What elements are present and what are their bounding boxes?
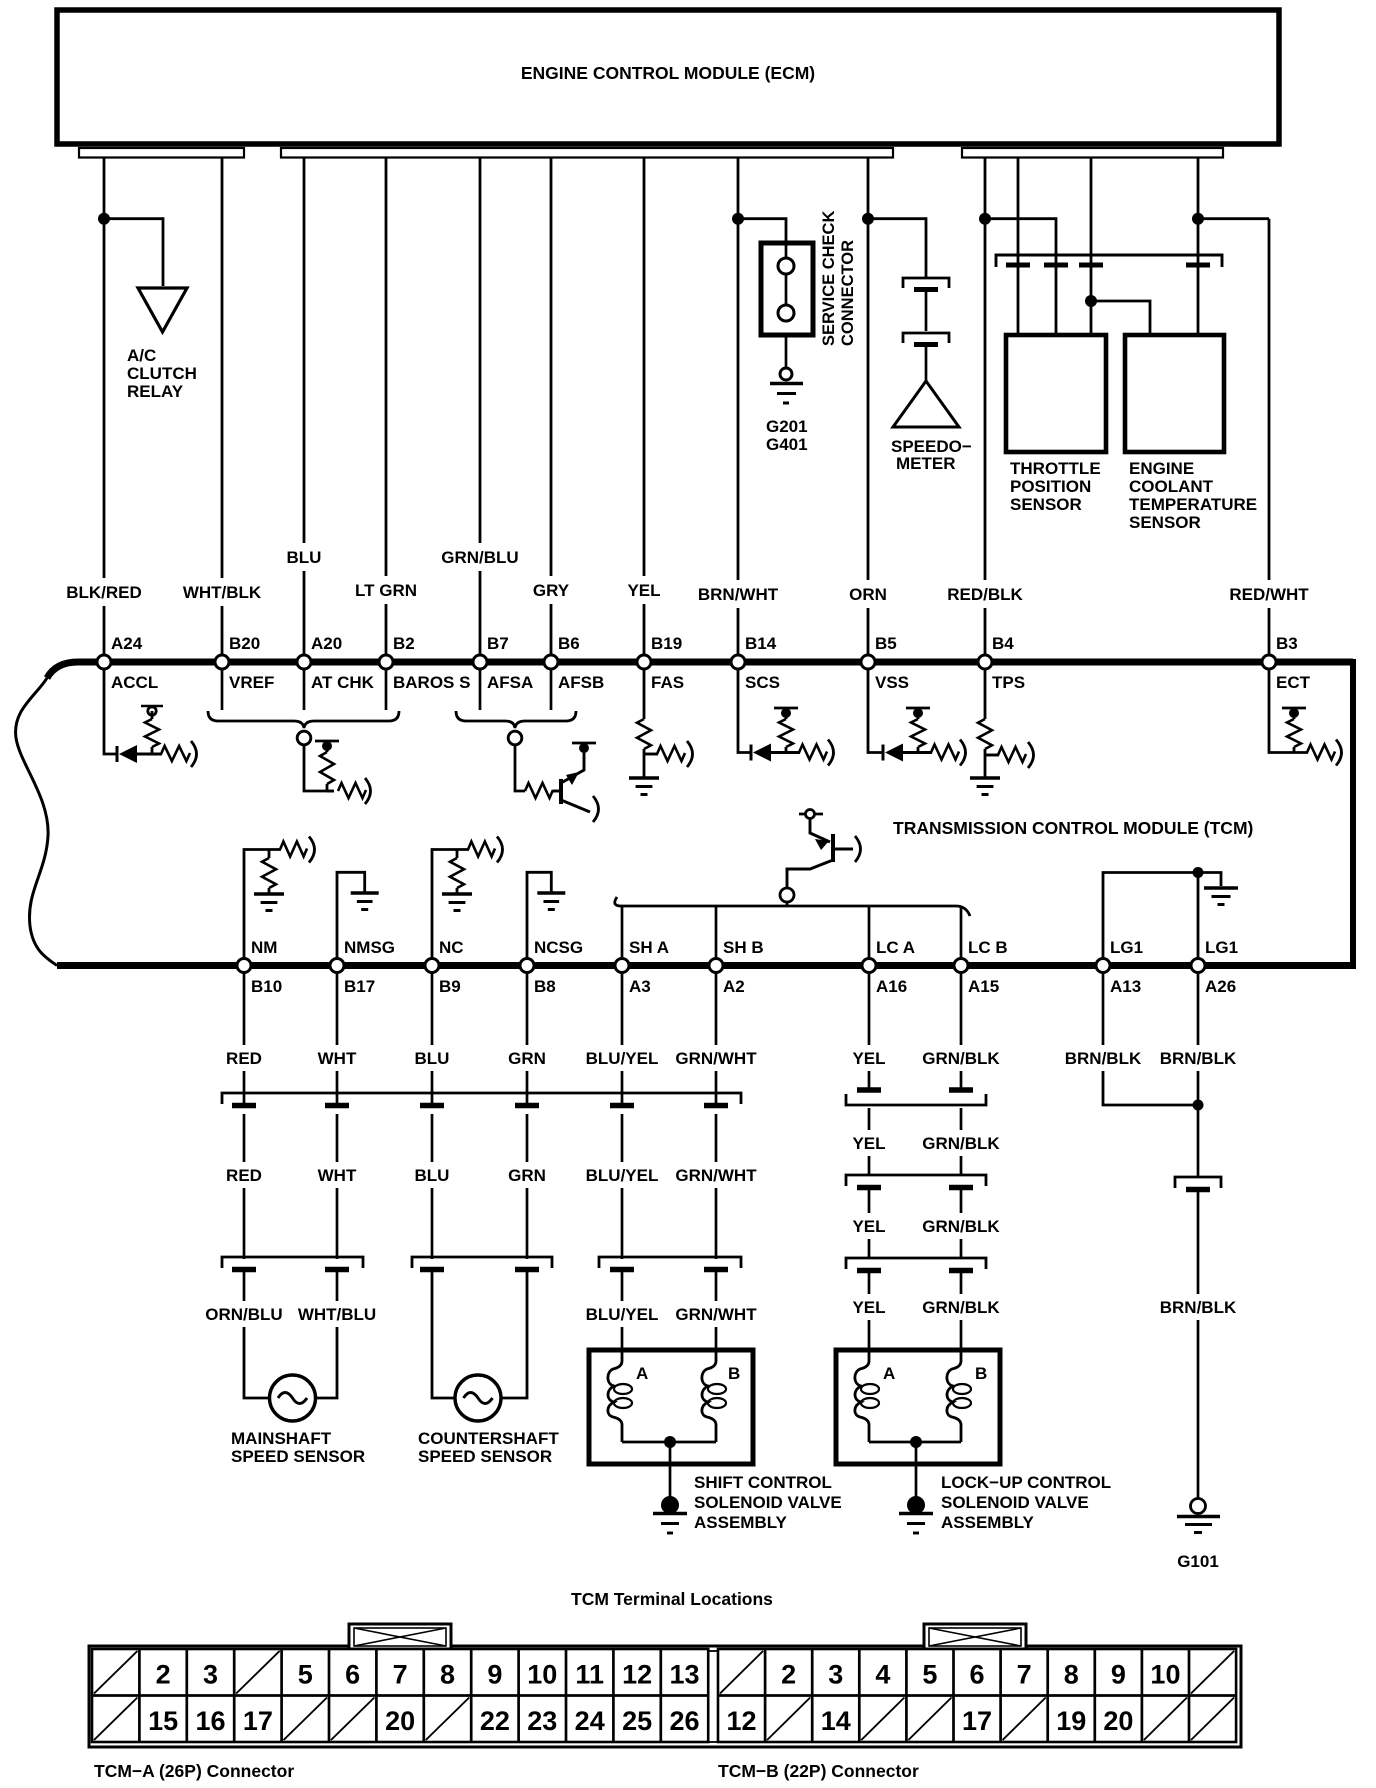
svg-text:7: 7 bbox=[393, 1660, 408, 1690]
svg-text:GRN/BLK: GRN/BLK bbox=[922, 1217, 1000, 1236]
svg-text:TEMPERATURE: TEMPERATURE bbox=[1129, 495, 1257, 514]
transistor Q (AFSA driver) bbox=[515, 743, 599, 822]
svg-text:AFSA: AFSA bbox=[487, 673, 533, 692]
wire BRN/BLK to G101 bbox=[1160, 1191, 1237, 1498]
wire ORN/BLU to mainshaft sensor bbox=[205, 1272, 282, 1398]
wire ECT pin2 bbox=[1197, 158, 1200, 339]
wire branch to B3 bbox=[1198, 217, 1269, 220]
svg-text:RED/WHT: RED/WHT bbox=[1229, 585, 1309, 604]
svg-text:9: 9 bbox=[1111, 1660, 1126, 1690]
TCM label bbox=[893, 818, 1253, 838]
svg-text:TCM Terminal Locations: TCM Terminal Locations bbox=[571, 1589, 773, 1609]
svg-text:LC A: LC A bbox=[876, 938, 915, 957]
wire BLU (below 432) bbox=[415, 972, 450, 1259]
svg-text:B6: B6 bbox=[558, 634, 580, 653]
terminal A3 SH A bbox=[615, 938, 669, 996]
wire B6 GRY bbox=[533, 158, 570, 663]
svg-text:A: A bbox=[883, 1364, 895, 1383]
terminal B3 ECT bbox=[1262, 634, 1311, 692]
wire WHT/BLU to mainshaft sensor bbox=[298, 1272, 376, 1398]
junction B3 branch bbox=[1192, 213, 1204, 225]
svg-text:B5: B5 bbox=[875, 634, 897, 653]
svg-text:GRN/WHT: GRN/WHT bbox=[675, 1305, 757, 1324]
svg-text:B2: B2 bbox=[393, 634, 415, 653]
inline connector LC row1 bbox=[846, 1090, 986, 1105]
svg-text:GRN/WHT: GRN/WHT bbox=[675, 1166, 757, 1185]
SH/LC gathering bracket bbox=[615, 897, 970, 958]
terminal A26 LG1 bbox=[1191, 938, 1238, 996]
wire B3 RED/WHT bbox=[1229, 219, 1309, 662]
svg-text:CLUTCH: CLUTCH bbox=[127, 364, 197, 383]
terminal B7 AFSA bbox=[473, 634, 533, 692]
svg-text:BLU/YEL: BLU/YEL bbox=[586, 1305, 659, 1324]
junction B5/speedometer bbox=[862, 213, 874, 225]
svg-text:20: 20 bbox=[1103, 1706, 1133, 1736]
wire TPS pin1 bbox=[1017, 158, 1020, 339]
svg-text:SOLENOID VALVE: SOLENOID VALVE bbox=[941, 1493, 1089, 1512]
svg-text:COUNTERSHAFT: COUNTERSHAFT bbox=[418, 1429, 559, 1448]
svg-text:FAS: FAS bbox=[651, 673, 684, 692]
VREF group resistor network bbox=[304, 741, 371, 804]
AFSA/AFSB brace bbox=[456, 669, 576, 745]
service check connector bbox=[761, 243, 813, 335]
svg-text:THROTTLE: THROTTLE bbox=[1010, 459, 1101, 478]
svg-text:VSS: VSS bbox=[875, 673, 909, 692]
junction BRN/BLK bbox=[1193, 1100, 1204, 1111]
junction A24/relay bbox=[98, 213, 110, 225]
svg-text:3: 3 bbox=[828, 1660, 843, 1690]
svg-text:GRN: GRN bbox=[508, 1049, 546, 1068]
TCM bottom bus bbox=[57, 962, 1353, 969]
svg-text:NMSG: NMSG bbox=[344, 938, 395, 957]
svg-text:LT GRN: LT GRN bbox=[355, 581, 417, 600]
svg-text:CONNECTOR: CONNECTOR bbox=[839, 240, 857, 346]
svg-text:A24: A24 bbox=[111, 634, 143, 653]
svg-text:14: 14 bbox=[821, 1706, 851, 1736]
svg-text:7: 7 bbox=[1017, 1660, 1032, 1690]
svg-text:SH B: SH B bbox=[723, 938, 764, 957]
svg-text:15: 15 bbox=[148, 1706, 178, 1736]
label lock-up control bbox=[941, 1473, 1111, 1532]
wire B4 RED/BLK bbox=[947, 158, 1023, 663]
terminal A2 SH B bbox=[709, 938, 764, 996]
terminal B20 VREF bbox=[215, 634, 274, 692]
svg-text:B9: B9 bbox=[439, 977, 461, 996]
shift solenoid coil A bbox=[608, 1350, 670, 1442]
terminal A13 LG1 bbox=[1096, 938, 1143, 996]
svg-text:A20: A20 bbox=[311, 634, 342, 653]
svg-text:GRN: GRN bbox=[508, 1166, 546, 1185]
wire GRN/WHT to shift solenoid bbox=[675, 1272, 757, 1350]
svg-text:13: 13 bbox=[669, 1660, 699, 1690]
wire BRN/BLK from A26 bbox=[1160, 972, 1237, 1176]
svg-text:22: 22 bbox=[480, 1706, 510, 1736]
terminal A20 AT CHK bbox=[297, 634, 375, 692]
VREF/AT CHK/BAROS S brace bbox=[208, 669, 399, 745]
svg-text:A/C: A/C bbox=[127, 346, 156, 365]
svg-text:POSITION: POSITION bbox=[1010, 477, 1091, 496]
svg-text:WHT/BLK: WHT/BLK bbox=[183, 583, 262, 602]
svg-text:METER: METER bbox=[896, 454, 956, 473]
A/C clutch relay symbol bbox=[127, 288, 197, 401]
label shift control bbox=[694, 1473, 842, 1532]
junction B14/service check bbox=[732, 213, 744, 225]
svg-text:ORN/BLU: ORN/BLU bbox=[205, 1305, 282, 1324]
svg-text:G201: G201 bbox=[766, 417, 808, 436]
inline connector (speedo 2) bbox=[903, 333, 949, 381]
svg-text:25: 25 bbox=[622, 1706, 652, 1736]
svg-text:ASSEMBLY: ASSEMBLY bbox=[694, 1513, 788, 1532]
ECM connector shell 1 bbox=[79, 148, 244, 158]
VSS internal network bbox=[868, 669, 966, 766]
svg-text:YEL: YEL bbox=[852, 1217, 885, 1236]
svg-text:16: 16 bbox=[195, 1706, 225, 1736]
terminal B2 BAROS S bbox=[379, 634, 470, 692]
lock-up solenoid coil B bbox=[916, 1350, 971, 1442]
wire B7 GRN/BLU bbox=[441, 158, 518, 663]
svg-text:ENGINE: ENGINE bbox=[1129, 459, 1194, 478]
wire TPS pin2 bbox=[985, 219, 1056, 338]
svg-text:B4: B4 bbox=[992, 634, 1014, 653]
svg-text:SPEED SENSOR: SPEED SENSOR bbox=[231, 1447, 365, 1466]
svg-text:17: 17 bbox=[243, 1706, 273, 1736]
svg-text:BLU: BLU bbox=[415, 1049, 450, 1068]
transistor Q (solenoid driver) bbox=[780, 810, 861, 907]
svg-text:5: 5 bbox=[298, 1660, 313, 1690]
svg-text:B17: B17 bbox=[344, 977, 375, 996]
NC internal network bbox=[432, 837, 503, 959]
ground G101 bbox=[1177, 1499, 1220, 1572]
svg-text:AFSB: AFSB bbox=[558, 673, 604, 692]
label SERVICE CHECK CONNECTOR bbox=[820, 211, 857, 346]
svg-text:ENGINE CONTROL MODULE (ECM): ENGINE CONTROL MODULE (ECM) bbox=[521, 63, 815, 83]
inline connector row2 bracket B bbox=[412, 1257, 552, 1270]
svg-text:YEL: YEL bbox=[852, 1134, 885, 1153]
svg-text:24: 24 bbox=[575, 1706, 605, 1736]
svg-text:B: B bbox=[728, 1364, 740, 1383]
TCM-A 26P connector grid bbox=[92, 1649, 708, 1781]
svg-text:A13: A13 bbox=[1110, 977, 1141, 996]
wire BRN/BLK from A13 bbox=[1065, 972, 1198, 1105]
svg-text:WHT/BLU: WHT/BLU bbox=[298, 1305, 376, 1324]
wire B19 YEL bbox=[627, 158, 660, 663]
TCM torn left edge bbox=[16, 678, 57, 966]
wire TPS pin3 bbox=[1090, 158, 1093, 339]
wire BLU/YEL to shift solenoid bbox=[586, 1272, 659, 1350]
wire B14 BRN/WHT bbox=[698, 158, 779, 663]
svg-text:3: 3 bbox=[203, 1660, 218, 1690]
svg-text:A2: A2 bbox=[723, 977, 745, 996]
title TCM Terminal Locations bbox=[571, 1589, 773, 1609]
svg-text:A26: A26 bbox=[1205, 977, 1236, 996]
svg-text:WHT: WHT bbox=[318, 1049, 357, 1068]
svg-text:5: 5 bbox=[922, 1660, 937, 1690]
TCM right edge bbox=[1350, 659, 1356, 969]
mainshaft speed sensor bbox=[231, 1375, 365, 1466]
svg-text:GRY: GRY bbox=[533, 581, 570, 600]
svg-text:2: 2 bbox=[781, 1660, 796, 1690]
svg-text:BRN/BLK: BRN/BLK bbox=[1160, 1049, 1237, 1068]
svg-text:23: 23 bbox=[527, 1706, 557, 1736]
throttle position sensor box bbox=[1006, 335, 1106, 514]
svg-text:19: 19 bbox=[1056, 1706, 1086, 1736]
svg-text:BLU/YEL: BLU/YEL bbox=[586, 1166, 659, 1185]
svg-text:12: 12 bbox=[727, 1706, 757, 1736]
ACCL internal network bbox=[104, 669, 197, 767]
svg-text:6: 6 bbox=[345, 1660, 360, 1690]
svg-text:COOLANT: COOLANT bbox=[1129, 477, 1214, 496]
engine coolant temperature sensor box bbox=[1125, 335, 1257, 532]
wire WHT (below 337) bbox=[318, 972, 357, 1259]
inline connector LC row3 bbox=[846, 1258, 986, 1271]
wire A20 BLU bbox=[287, 158, 322, 663]
svg-text:RED/BLK: RED/BLK bbox=[947, 585, 1023, 604]
svg-text:A15: A15 bbox=[968, 977, 999, 996]
wire A24 BLK/RED bbox=[66, 158, 142, 663]
terminal B4 TPS bbox=[978, 634, 1025, 692]
svg-text:RED: RED bbox=[226, 1166, 262, 1185]
inline connector row2 bracket A bbox=[222, 1257, 363, 1270]
ECM module box bbox=[57, 10, 1279, 144]
wire GRN/BLK (below 961) bbox=[922, 972, 1000, 1350]
svg-text:SH A: SH A bbox=[629, 938, 669, 957]
NM internal network bbox=[244, 837, 315, 959]
svg-text:SENSOR: SENSOR bbox=[1129, 513, 1201, 532]
shift solenoid coil B bbox=[670, 1350, 726, 1442]
NMSG internal ground bbox=[337, 872, 379, 958]
svg-text:B8: B8 bbox=[534, 977, 556, 996]
svg-text:NC: NC bbox=[439, 938, 464, 957]
terminal A24 ACCL bbox=[97, 634, 158, 692]
svg-text:ORN: ORN bbox=[849, 585, 887, 604]
TCM-B 22P connector grid bbox=[718, 1649, 1236, 1781]
svg-text:11: 11 bbox=[575, 1660, 604, 1690]
svg-text:6: 6 bbox=[970, 1660, 985, 1690]
svg-text:MAINSHAFT: MAINSHAFT bbox=[231, 1429, 332, 1448]
svg-text:TRANSMISSION CONTROL MODULE (T: TRANSMISSION CONTROL MODULE (TCM) bbox=[893, 818, 1253, 838]
wire RED (below 244) bbox=[226, 972, 262, 1259]
svg-text:8: 8 bbox=[440, 1660, 455, 1690]
wire B20 WHT/BLK bbox=[183, 158, 262, 663]
svg-text:LOCK−UP CONTROL: LOCK−UP CONTROL bbox=[941, 1473, 1111, 1492]
svg-text:AT CHK: AT CHK bbox=[311, 673, 375, 692]
svg-text:SCS: SCS bbox=[745, 673, 780, 692]
svg-text:B20: B20 bbox=[229, 634, 260, 653]
TCM top bus bbox=[47, 662, 1353, 678]
wire ECT pin1 bbox=[1091, 301, 1150, 338]
svg-text:GRN/BLK: GRN/BLK bbox=[922, 1049, 1000, 1068]
svg-text:B14: B14 bbox=[745, 634, 777, 653]
connector lock tab A bbox=[349, 1624, 451, 1649]
terminal B17 NMSG bbox=[330, 938, 395, 996]
ECM connector shell 3 bbox=[962, 148, 1223, 158]
wire to service check connector bbox=[738, 219, 786, 243]
svg-text:RELAY: RELAY bbox=[127, 382, 184, 401]
LG1 internal ground bbox=[1103, 867, 1238, 958]
svg-text:4: 4 bbox=[875, 1660, 890, 1690]
svg-text:BRN/WHT: BRN/WHT bbox=[698, 585, 779, 604]
ground G201 G401 bbox=[766, 335, 808, 454]
countershaft speed sensor bbox=[418, 1375, 559, 1466]
svg-text:BRN/BLK: BRN/BLK bbox=[1160, 1298, 1237, 1317]
svg-text:G401: G401 bbox=[766, 435, 808, 454]
svg-text:YEL: YEL bbox=[852, 1049, 885, 1068]
wire to speedometer bbox=[868, 219, 926, 277]
svg-text:26: 26 bbox=[669, 1706, 699, 1736]
terminal B14 SCS bbox=[731, 634, 780, 692]
svg-text:B7: B7 bbox=[487, 634, 509, 653]
svg-text:LC B: LC B bbox=[968, 938, 1008, 957]
terminal B10 NM bbox=[237, 938, 282, 996]
svg-text:10: 10 bbox=[527, 1660, 557, 1690]
svg-text:B10: B10 bbox=[251, 977, 282, 996]
terminal A15 LC B bbox=[954, 938, 1008, 996]
svg-text:17: 17 bbox=[962, 1706, 992, 1736]
svg-text:SENSOR: SENSOR bbox=[1010, 495, 1082, 514]
svg-text:SHIFT CONTROL: SHIFT CONTROL bbox=[694, 1473, 832, 1492]
svg-text:GRN/BLK: GRN/BLK bbox=[922, 1298, 1000, 1317]
svg-text:GRN/BLK: GRN/BLK bbox=[922, 1134, 1000, 1153]
lock-up solenoid coil A bbox=[855, 1350, 916, 1442]
svg-text:10: 10 bbox=[1150, 1660, 1180, 1690]
svg-text:ASSEMBLY: ASSEMBLY bbox=[941, 1513, 1035, 1532]
lock-up solenoid ground bbox=[899, 1436, 933, 1533]
svg-text:SERVICE CHECK: SERVICE CHECK bbox=[820, 211, 838, 346]
svg-text:BLU: BLU bbox=[287, 548, 322, 567]
inline connector (speedo 1) bbox=[903, 278, 949, 331]
speedometer symbol bbox=[891, 381, 972, 473]
svg-text:YEL: YEL bbox=[852, 1298, 885, 1317]
lock-up control solenoid valve assembly box bbox=[836, 1350, 1000, 1464]
terminal B9 NC bbox=[425, 938, 464, 996]
svg-text:GRN/WHT: GRN/WHT bbox=[675, 1049, 757, 1068]
inline connector row1 (left harness) bbox=[222, 1093, 741, 1106]
wire B2 LT GRN bbox=[355, 158, 417, 663]
inline connector row2 bracket C bbox=[599, 1257, 741, 1270]
svg-text:NM: NM bbox=[251, 938, 277, 957]
inline connector LC row2 bbox=[846, 1175, 986, 1188]
connector lock tab B bbox=[924, 1624, 1026, 1649]
svg-text:12: 12 bbox=[622, 1660, 652, 1690]
svg-text:20: 20 bbox=[385, 1706, 415, 1736]
svg-text:9: 9 bbox=[487, 1660, 502, 1690]
terminal B5 VSS bbox=[861, 634, 909, 692]
svg-text:B: B bbox=[975, 1364, 987, 1383]
svg-text:G101: G101 bbox=[1177, 1552, 1219, 1571]
wire YEL (below 869) bbox=[852, 972, 885, 1350]
shift solenoid ground bbox=[653, 1436, 687, 1533]
svg-text:TCM−B (22P) Connector: TCM−B (22P) Connector bbox=[718, 1761, 919, 1781]
wire to A/C clutch relay bbox=[104, 219, 163, 286]
svg-text:BLU: BLU bbox=[415, 1166, 450, 1185]
wire GRN/WHT (below 716) bbox=[675, 972, 757, 1259]
connector outer shell bbox=[89, 1646, 1241, 1747]
svg-text:LG1: LG1 bbox=[1205, 938, 1238, 957]
svg-text:A3: A3 bbox=[629, 977, 651, 996]
TPS internal network bbox=[970, 669, 1034, 795]
svg-text:ECT: ECT bbox=[1276, 673, 1311, 692]
svg-text:BLK/RED: BLK/RED bbox=[66, 583, 142, 602]
svg-text:SPEED SENSOR: SPEED SENSOR bbox=[418, 1447, 552, 1466]
svg-text:GRN/BLU: GRN/BLU bbox=[441, 548, 518, 567]
svg-text:ACCL: ACCL bbox=[111, 673, 158, 692]
wire GRN to countershaft sensor bbox=[502, 1272, 527, 1398]
SCS internal network bbox=[738, 669, 834, 766]
svg-text:RED: RED bbox=[226, 1049, 262, 1068]
svg-text:BLU/YEL: BLU/YEL bbox=[586, 1049, 659, 1068]
svg-text:WHT: WHT bbox=[318, 1166, 357, 1185]
svg-text:NCSG: NCSG bbox=[534, 938, 583, 957]
svg-text:LG1: LG1 bbox=[1110, 938, 1143, 957]
svg-text:A16: A16 bbox=[876, 977, 907, 996]
ECM connector shell 2 bbox=[281, 148, 893, 158]
ECT internal network bbox=[1269, 669, 1342, 766]
wire BLU/YEL (below 622) bbox=[586, 972, 659, 1259]
svg-text:TPS: TPS bbox=[992, 673, 1025, 692]
svg-text:A: A bbox=[636, 1364, 648, 1383]
shift control solenoid valve assembly box bbox=[589, 1350, 753, 1464]
NCSG internal ground bbox=[527, 872, 565, 958]
wire GRN (below 527) bbox=[508, 972, 546, 1259]
terminal B8 NCSG bbox=[520, 938, 583, 996]
svg-text:SOLENOID VALVE: SOLENOID VALVE bbox=[694, 1493, 842, 1512]
junction ECT feed bbox=[1085, 295, 1097, 307]
wire B5 ORN bbox=[849, 158, 887, 663]
svg-text:VREF: VREF bbox=[229, 673, 274, 692]
svg-text:BRN/BLK: BRN/BLK bbox=[1065, 1049, 1142, 1068]
inline connector (sensor harness) bbox=[996, 255, 1222, 267]
svg-text:8: 8 bbox=[1064, 1660, 1079, 1690]
svg-text:YEL: YEL bbox=[627, 581, 660, 600]
svg-text:B19: B19 bbox=[651, 634, 682, 653]
svg-text:BAROS S: BAROS S bbox=[393, 673, 470, 692]
svg-text:TCM−A (26P) Connector: TCM−A (26P) Connector bbox=[94, 1761, 294, 1781]
wire BLU to countershaft sensor bbox=[432, 1272, 455, 1398]
terminal B6 AFSB bbox=[544, 634, 604, 692]
junction B4/TPS feed bbox=[979, 213, 991, 225]
terminal A16 LC A bbox=[862, 938, 915, 996]
FAS resistor network bbox=[629, 669, 693, 795]
terminal B19 FAS bbox=[637, 634, 684, 692]
svg-text:B3: B3 bbox=[1276, 634, 1298, 653]
svg-text:2: 2 bbox=[156, 1660, 171, 1690]
inline connector BRN/BLK bbox=[1175, 1177, 1221, 1190]
